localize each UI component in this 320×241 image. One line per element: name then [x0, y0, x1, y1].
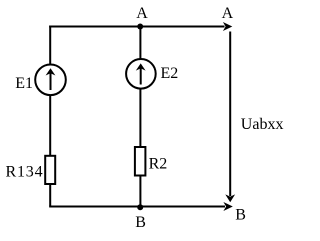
- node B junction dot: [137, 204, 143, 210]
- svg-text:R134: R134: [6, 164, 44, 181]
- svg-text:Uabxx: Uabxx: [241, 116, 284, 133]
- E1 arrow: [50, 73, 52, 91]
- svg-text:B: B: [135, 214, 146, 231]
- resistor R134: [45, 156, 55, 184]
- svg-text:E2: E2: [161, 65, 179, 82]
- svg-text:A: A: [136, 5, 148, 22]
- svg-text:R2: R2: [149, 156, 168, 173]
- voltage source E2: [126, 59, 156, 89]
- svg-text:E1: E1: [15, 75, 33, 92]
- wire: top horizontal from left branch to terminal A: [49, 26, 224, 28]
- arrowhead at terminal B: [223, 202, 232, 211]
- resistor R2: [135, 147, 146, 176]
- wire: bottom horizontal from left branch to terminal B: [49, 206, 225, 208]
- voltage source E1: [35, 65, 66, 96]
- svg-text:A: A: [222, 5, 234, 22]
- E2 arrow: [140, 68, 142, 85]
- arrowhead at terminal A: [223, 22, 232, 31]
- svg-text:B: B: [235, 207, 246, 224]
- node A junction dot: [137, 24, 143, 30]
- wire: middle (E2) branch vertical: [139, 27, 141, 207]
- wire: left branch vertical: [49, 26, 51, 207]
- Uab measurement arrow (vertical, right side): [229, 32, 231, 197]
